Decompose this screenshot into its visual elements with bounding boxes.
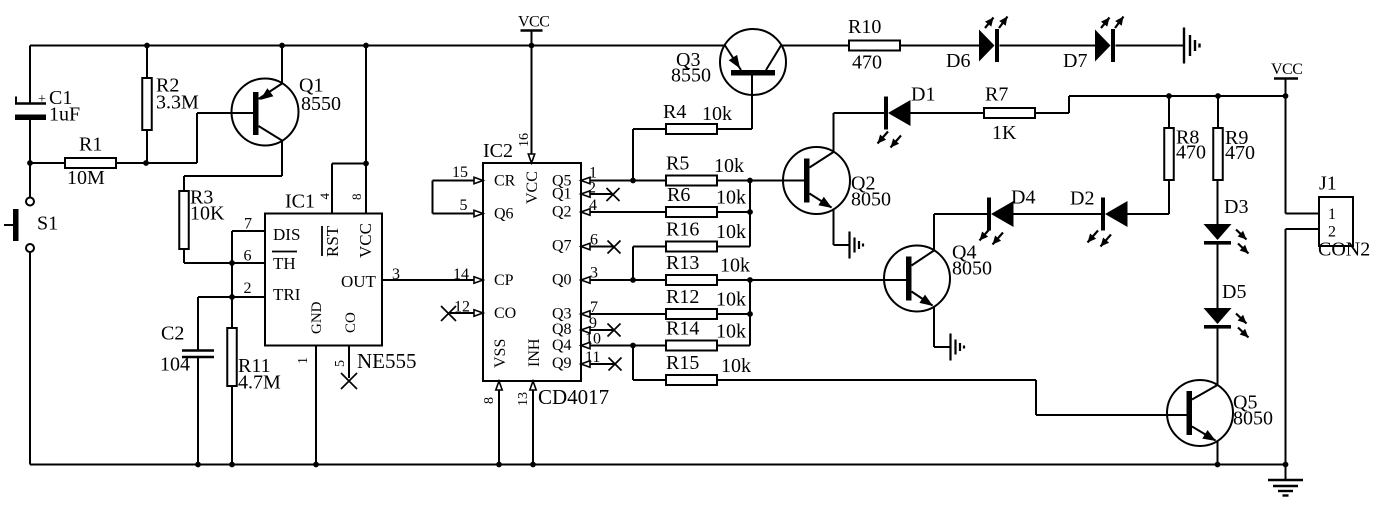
open arrow IC2 Q3 pin: [581, 311, 590, 317]
op-amp IC1 NE555 box: [265, 191, 417, 374]
resistor R13 10k: [666, 252, 750, 285]
svg-text:9: 9: [589, 315, 597, 332]
open arrow IC2 VCC pin 16: [528, 154, 534, 163]
wire top VCC rail: [30, 45, 725, 47]
no-connect X IC2 pin 11: [609, 358, 622, 371]
open arrow IC2 Q7 pin: [581, 243, 590, 249]
svg-text:12: 12: [454, 299, 470, 316]
wire IC1 DIS pin 7: [232, 231, 265, 263]
wire IC2 INH pin 13 to ground rail: [532, 381, 534, 465]
svg-text:6: 6: [590, 232, 598, 249]
wire R8 top: [1168, 96, 1170, 128]
svg-text:8050: 8050: [952, 258, 992, 280]
svg-text:VCC: VCC: [1271, 61, 1302, 78]
wire tie column R13/R12/R14: [749, 280, 751, 346]
wire bottom ground rail: [30, 464, 1286, 466]
svg-text:4: 4: [589, 197, 597, 214]
wire J1 pin 2 to ground rail: [1286, 229, 1320, 465]
svg-text:VSS: VSS: [492, 339, 509, 368]
wire left rail top (C1 to top rail): [29, 46, 31, 104]
node junction Q1 emitter/top rail: [279, 43, 285, 49]
svg-text:7: 7: [590, 299, 598, 316]
svg-text:5: 5: [460, 197, 468, 214]
wire D6 to D7: [1000, 45, 1096, 47]
resistor R6 10k: [666, 184, 746, 217]
svg-text:DIS: DIS: [273, 225, 300, 244]
resistor R11 4.7M: [227, 328, 281, 394]
resistor R16 10k: [666, 219, 746, 252]
no-connect X IC2 pin 12: [441, 306, 456, 321]
node junction R11/ground rail: [229, 462, 235, 468]
LED D1: [878, 84, 936, 148]
svg-text:11: 11: [585, 349, 600, 366]
svg-text:Q7: Q7: [552, 238, 572, 255]
open arrow IC2 INH pin: [530, 381, 536, 390]
wire R4 left to R5 row: [633, 129, 666, 181]
wire R2 top: [146, 46, 148, 79]
wire IC1 OUT pin 3 to IC2 CP pin 14: [382, 279, 483, 281]
wire IC2 Q0 pin 3 to R13 and Q4 base: [581, 279, 906, 281]
wire Q3 collector to R10: [781, 45, 849, 47]
svg-text:10M: 10M: [67, 167, 105, 189]
transistor Q1 8550 PNP: [232, 75, 342, 146]
wire IC1 GND pin 1 to ground rail: [315, 346, 317, 465]
node junction R14/R15 tie: [630, 343, 636, 349]
svg-text:Q3: Q3: [552, 306, 572, 323]
svg-text:CP: CP: [494, 272, 514, 289]
LED D4: [980, 187, 1036, 245]
LED D2: [1070, 188, 1128, 247]
svg-text:J1: J1: [1319, 173, 1337, 195]
open arrow IC2 Q5 pin: [581, 177, 590, 183]
wire R12 right: [717, 313, 750, 315]
ground symbol bottom right: [1268, 465, 1303, 496]
wire Q1 emitter to top rail: [281, 46, 283, 84]
svg-text:R4: R4: [663, 101, 686, 123]
svg-text:1: 1: [1328, 206, 1336, 223]
wire Q4 collector to D4 row: [934, 214, 987, 251]
wire IC2 Q8 pin 9 stub: [581, 329, 613, 331]
wire R15 left tie to Q4 row: [633, 346, 666, 381]
wire D3 to D5: [1217, 245, 1219, 309]
no-connect X IC2 pin 9: [608, 324, 621, 337]
open arrow IC2 CP pin: [474, 277, 483, 283]
svg-text:GND: GND: [309, 301, 325, 334]
svg-text:TRI: TRI: [273, 285, 301, 304]
node junction pin4/pin8 tie: [363, 161, 369, 167]
svg-text:CON2: CON2: [1318, 239, 1370, 261]
svg-text:8550: 8550: [671, 65, 711, 87]
resistor R9 470: [1213, 127, 1255, 180]
svg-text:10k: 10k: [721, 355, 751, 377]
svg-text:104: 104: [160, 354, 190, 376]
svg-text:CD4017: CD4017: [538, 385, 609, 409]
wire Q4 emitter to ground: [934, 307, 950, 348]
svg-text:10k: 10k: [702, 103, 732, 125]
svg-text:8: 8: [482, 397, 497, 404]
svg-text:VCC: VCC: [518, 14, 549, 31]
svg-text:10k: 10k: [716, 221, 746, 243]
svg-text:1K: 1K: [992, 122, 1017, 144]
wire D7 to ground: [1116, 45, 1185, 47]
open arrow IC2 Q0 pin: [581, 277, 590, 283]
node junction R2/top rail: [144, 43, 150, 49]
svg-text:D3: D3: [1224, 196, 1248, 218]
wire IC1 CO pin 5 stub: [348, 346, 350, 379]
wire IC2 VSS pin 8 to ground rail: [498, 381, 500, 465]
svg-text:Q1: Q1: [552, 186, 572, 203]
svg-text:2: 2: [588, 180, 596, 197]
resistor R10 470: [848, 16, 900, 74]
open arrow IC2 Q1 pin: [581, 191, 590, 197]
wire IC1 VCC pin 8 to top rail: [365, 46, 367, 214]
wire Q2 collector to D1 row: [834, 113, 885, 152]
wire IC2 Q9 pin 11 stub: [581, 363, 614, 365]
wire R11 top: [231, 297, 233, 328]
svg-text:VCC: VCC: [524, 171, 541, 204]
node junction TRI/R11: [229, 294, 235, 300]
LED D6: [946, 17, 1008, 73]
wire R9 bottom to D3: [1217, 180, 1219, 224]
svg-text:Q9: Q9: [552, 355, 572, 372]
svg-text:D1: D1: [911, 84, 935, 106]
svg-text:IC1: IC1: [285, 191, 315, 213]
wire R7 to VCC rail right: [1035, 96, 1286, 113]
node junction Q5 emitter/ground rail: [1215, 462, 1221, 468]
open arrow IC2 Q2 pin: [581, 209, 590, 215]
svg-text:IC2: IC2: [483, 140, 513, 162]
svg-text:16: 16: [517, 133, 532, 147]
capacitor C1 1uF: [15, 87, 80, 126]
svg-text:10k: 10k: [714, 155, 744, 177]
svg-text:INH: INH: [526, 338, 543, 367]
wire IC2 Q1 pin 2 stub: [581, 193, 612, 195]
node junction C1/R1/S1: [27, 160, 33, 166]
resistor R3 10K: [179, 187, 225, 250]
wire R5 right to Q2 base tie: [717, 180, 804, 182]
svg-text:R16: R16: [666, 219, 699, 241]
resistor R1 10M: [65, 134, 116, 190]
power VCC symbol right: [1271, 61, 1302, 96]
svg-text:14: 14: [453, 266, 469, 283]
open arrow IC2 Q8 pin: [581, 327, 590, 333]
svg-text:4.7M: 4.7M: [238, 372, 281, 394]
wire DIS/TH tie down to TRI row: [231, 263, 233, 297]
ground rotated Q2 emitter: [850, 232, 864, 259]
open arrow IC2 CO pin: [474, 310, 483, 316]
wire IC1 RST pin 4 to VCC tie: [332, 164, 366, 214]
svg-text:8550: 8550: [301, 93, 341, 115]
svg-text:CO: CO: [343, 312, 359, 333]
node junction R4/R5 row: [630, 178, 636, 184]
svg-text:1uF: 1uF: [49, 104, 80, 126]
svg-text:NE555: NE555: [357, 349, 417, 373]
wire R15 right to Q5 base: [717, 380, 1187, 415]
wire S1 to bottom rail: [29, 252, 31, 465]
node junction C2/ground rail: [195, 462, 201, 468]
resistor R7 1K: [984, 84, 1035, 145]
node junction J1 ground/rail: [1283, 462, 1289, 468]
wire C1 to R1/S1 junction: [29, 120, 31, 198]
svg-text:D2: D2: [1070, 188, 1094, 210]
capacitor C2 104: [160, 323, 214, 376]
wire R10 to D6: [900, 45, 979, 47]
open arrow IC2 Q6 pin: [474, 210, 483, 216]
wire C2 bottom to ground rail: [197, 358, 199, 465]
wire R16 right: [717, 246, 750, 248]
ground rotated Q4 emitter: [951, 334, 965, 361]
LED D5: [1204, 281, 1249, 338]
wire R2 bottom: [146, 130, 148, 163]
open arrow IC2 Q9 pin: [581, 361, 590, 367]
resistor R12 10k: [666, 286, 746, 319]
wire IC2 Q7 pin 6 stub: [581, 246, 613, 248]
node junction VCC/top rail: [529, 43, 535, 49]
svg-text:R5: R5: [666, 153, 689, 175]
svg-text:470: 470: [1225, 142, 1255, 164]
wire R3 bottom to IC1 TH pin 6: [184, 249, 265, 263]
switch S1: [4, 198, 58, 253]
node junction R1/R2: [143, 160, 149, 166]
wire D5 to Q5 collector: [1217, 329, 1219, 386]
svg-text:1: 1: [296, 357, 311, 364]
svg-text:470: 470: [852, 52, 882, 74]
svg-text:10k: 10k: [716, 321, 746, 343]
svg-text:470: 470: [1176, 142, 1206, 164]
svg-text:15: 15: [452, 164, 468, 181]
wire IC2 Q4 pin 10 to R14: [581, 345, 666, 347]
IC IC2 CD4017 box: [483, 140, 609, 409]
svg-text:4: 4: [317, 193, 332, 200]
wire R9 top: [1217, 96, 1219, 128]
wire Q2 emitter to ground: [834, 209, 850, 246]
svg-text:3: 3: [392, 266, 400, 283]
resistor R14 10k: [666, 318, 746, 351]
transistor Q5 8050 NPN: [1167, 380, 1273, 446]
svg-text:D7: D7: [1063, 50, 1087, 72]
svg-text:R6: R6: [667, 184, 690, 206]
svg-text:Q6: Q6: [494, 206, 514, 223]
svg-text:8050: 8050: [1233, 408, 1273, 430]
wire R6 right: [717, 211, 750, 213]
node junction R13/tie column: [747, 277, 753, 283]
svg-text:10K: 10K: [190, 203, 225, 225]
svg-text:C2: C2: [161, 323, 184, 345]
node junction VCC symbol/rail: [1283, 93, 1289, 99]
svg-text:5: 5: [333, 360, 348, 367]
wire R16 left to Q0 row: [633, 247, 666, 281]
connector J1 CON2: [1318, 173, 1370, 261]
svg-text:8: 8: [349, 194, 364, 201]
svg-text:10k: 10k: [716, 289, 746, 311]
svg-text:10: 10: [585, 331, 601, 348]
svg-text:OUT: OUT: [341, 272, 377, 291]
LED D7: [1063, 17, 1124, 73]
wire IC2 Q5 pin 1 to R5: [581, 180, 666, 182]
svg-text:R12: R12: [666, 286, 699, 308]
wire Q1 collector to R3: [184, 141, 282, 192]
svg-text:13: 13: [516, 392, 531, 406]
resistor R8 470: [1164, 127, 1206, 181]
wire VCC right to J1 pin 1: [1286, 96, 1320, 214]
wire IC2 CR pin 15 / Q6 pin 5 feedback loop: [433, 181, 484, 214]
no-connect X IC1 pin 5: [341, 373, 357, 389]
no-connect X IC2 pin 6: [608, 241, 621, 254]
svg-text:R10: R10: [848, 16, 881, 38]
svg-text:CR: CR: [494, 173, 516, 190]
wire IC2 Q2 pin 4 to R6: [581, 211, 666, 213]
ground rotated after D7: [1184, 28, 1200, 64]
open arrow IC2 Q4 pin: [581, 342, 590, 348]
open arrow IC2 CR pin: [474, 177, 483, 183]
node junction R12/tie column: [747, 311, 753, 317]
resistor R2 3.3M: [142, 75, 199, 131]
transistor Q4 8050 NPN: [884, 242, 992, 312]
wire IC2 Q3 pin 7 to R12: [581, 313, 666, 315]
node junction R16/R13 row: [630, 277, 636, 283]
svg-text:TH: TH: [273, 254, 296, 273]
transistor Q3 8550 PNP: [671, 29, 786, 95]
wire D4 to D2: [1014, 213, 1102, 215]
wire Q5 emitter to ground rail: [1217, 441, 1219, 465]
wire D1 to R7: [911, 112, 985, 114]
svg-text:3: 3: [590, 265, 598, 282]
power VCC symbol top middle: [518, 14, 549, 31]
node junction INH/ground rail: [530, 462, 536, 468]
svg-text:RST: RST: [323, 225, 342, 257]
svg-text:R7: R7: [985, 84, 1008, 106]
node junction R5/tie column: [747, 178, 753, 184]
svg-text:D5: D5: [1222, 281, 1246, 303]
svg-text:3.3M: 3.3M: [156, 92, 199, 114]
svg-text:Q2: Q2: [552, 204, 572, 221]
node junction IC1 GND/ground rail: [313, 462, 319, 468]
wire IC1 TRI pin 2 to C2: [198, 297, 265, 350]
node junction TH/DIS tie: [229, 260, 235, 266]
LED D3: [1204, 196, 1249, 254]
svg-text:R14: R14: [666, 318, 699, 340]
svg-text:7: 7: [244, 216, 252, 233]
open arrow IC2 VSS pin: [496, 381, 502, 390]
svg-text:8050: 8050: [851, 189, 891, 211]
svg-text:CO: CO: [494, 305, 516, 322]
svg-text:R1: R1: [79, 134, 102, 156]
svg-text:Q0: Q0: [552, 272, 572, 289]
wire tie column R5/R6/R16: [749, 181, 751, 247]
svg-text:D6: D6: [946, 50, 970, 72]
svg-text:R15: R15: [666, 352, 699, 374]
transistor Q2 8050 NPN: [783, 147, 891, 214]
wire VCC to top rail and IC2 pin 16: [531, 31, 533, 164]
node junction R8/VCC rail: [1166, 93, 1172, 99]
wire R4 right to Q3 base: [717, 76, 752, 130]
wire D2 to R8: [1128, 180, 1170, 214]
wire R1 right to R2 and Q1 base: [116, 113, 253, 163]
no-connect X IC2 pin 2: [607, 188, 620, 201]
resistor R5 10k: [666, 153, 744, 186]
node junction R6/tie column: [747, 209, 753, 215]
wire R11 bottom to ground rail: [231, 386, 233, 465]
svg-text:2: 2: [244, 280, 252, 297]
wire IC2 CO pin 12 stub: [450, 312, 483, 314]
wire R1 left: [30, 162, 65, 164]
svg-text:10k: 10k: [716, 187, 746, 209]
svg-text:S1: S1: [37, 213, 58, 235]
svg-text:+: +: [38, 92, 46, 107]
svg-text:D4: D4: [1011, 187, 1035, 209]
node junction IC1 power/top rail: [363, 43, 369, 49]
svg-text:Q4: Q4: [552, 337, 572, 354]
resistor R4 10k: [663, 101, 732, 134]
svg-text:6: 6: [244, 248, 252, 265]
node junction R9/VCC rail: [1215, 93, 1221, 99]
svg-text:Q8: Q8: [552, 321, 572, 338]
svg-text:10k: 10k: [720, 255, 750, 277]
svg-text:VCC: VCC: [356, 223, 375, 258]
resistor R15 10k: [666, 352, 751, 385]
node junction VSS/ground rail: [496, 462, 502, 468]
svg-text:R13: R13: [666, 252, 699, 274]
wire R14 right: [717, 345, 750, 347]
